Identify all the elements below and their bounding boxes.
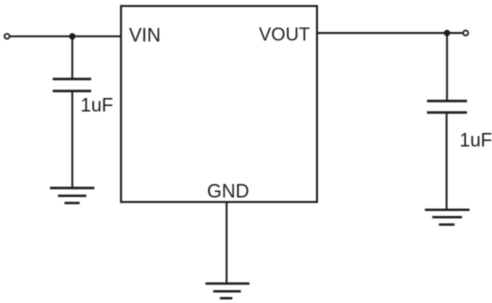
svg-text:GND: GND bbox=[207, 182, 249, 203]
svg-text:VIN: VIN bbox=[129, 26, 161, 47]
svg-text:1uF: 1uF bbox=[460, 131, 492, 152]
svg-text:VOUT: VOUT bbox=[259, 24, 310, 45]
svg-text:1uF: 1uF bbox=[81, 95, 114, 116]
